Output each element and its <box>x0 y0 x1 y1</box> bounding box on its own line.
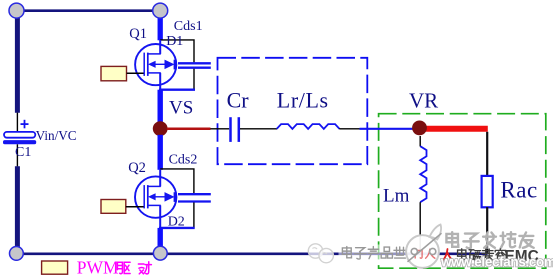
wire Rac bottom lead <box>486 207 488 253</box>
wire Q2 source bus <box>157 228 162 248</box>
svg-text:C1: C1 <box>15 145 31 160</box>
output network boundary (green dashed box) <box>379 114 546 269</box>
resistor Rac <box>482 176 493 207</box>
svg-text:Q2: Q2 <box>128 160 146 176</box>
legend PWM drive (yellow box) <box>42 261 68 274</box>
wire Rac top lead <box>486 132 488 176</box>
watermark white backing 2 <box>442 234 536 250</box>
wire Q1 gate lead <box>127 72 144 74</box>
wire Q1 drain to Cds1 (top) <box>160 40 194 63</box>
wire Q2 gate lead <box>126 206 144 208</box>
wire Q2 source return <box>159 227 195 229</box>
svg-text:PWM: PWM <box>77 258 119 278</box>
wire red to Cr plate (black) <box>210 128 229 130</box>
watermark dark text 电磁兼容 <box>458 249 506 260</box>
transistor Q2 <box>135 170 176 229</box>
label 动 (magenta hanzi) <box>138 262 151 274</box>
wire Cds2 to Q2 source (bottom lead) <box>193 203 195 229</box>
wire Lm bottom lead <box>419 202 421 253</box>
resonant tank boundary (blue dashed box) <box>218 58 368 164</box>
watermark red char 入 <box>442 249 455 261</box>
inductor Lm <box>420 146 426 202</box>
svg-text:Cr: Cr <box>227 88 250 113</box>
watermark text 电子产品世 (gray outline) <box>342 247 405 259</box>
svg-text:D1: D1 <box>166 34 183 49</box>
node top-right <box>153 3 168 18</box>
node top-left <box>9 3 24 18</box>
capacitor Cds1 <box>178 63 211 67</box>
wire VS to Cr (dark red) <box>167 128 211 131</box>
svg-text:D2: D2 <box>168 215 185 230</box>
wire Q2 drain to Cds2 (top) <box>160 169 194 193</box>
svg-text:Lm: Lm <box>383 186 410 207</box>
svg-text:Vin/VC: Vin/VC <box>36 128 77 143</box>
watermark leaf blob body <box>406 235 439 268</box>
svg-text:Lr/Ls: Lr/Ls <box>277 88 329 113</box>
node bottom-middle <box>153 246 167 260</box>
capacitor C1 (Vin/VC source) <box>3 132 36 144</box>
wire Cds1 to Q1 source (bottom lead) <box>193 69 195 90</box>
wire bottom rail <box>16 252 487 255</box>
wire Cr to Lr <box>240 128 277 130</box>
port PWM drive Q1 (yellow box) <box>101 66 127 80</box>
watermark red fragments in blob <box>415 249 435 258</box>
diode D1 (body diode) <box>165 60 175 70</box>
watermark leaf blob tail <box>430 225 442 240</box>
watermark text 电子发烧友 (big gray outline) <box>446 232 533 248</box>
watermark note circles and slash <box>408 233 442 262</box>
svg-text:Cds2: Cds2 <box>169 152 198 167</box>
wire C1 top lead <box>16 113 18 133</box>
capacitor Cds2 <box>178 194 211 201</box>
watermark EPW logo circles <box>308 244 333 263</box>
wire Q1 drain bus <box>158 13 163 40</box>
svg-text:Rac: Rac <box>500 178 537 203</box>
svg-text:Q1: Q1 <box>129 26 147 42</box>
wire Lr to green box (black) <box>339 128 359 130</box>
wire left bus lower <box>15 166 20 249</box>
watermark white backing 1 <box>339 245 406 261</box>
diode D2 (body diode) <box>165 192 175 202</box>
transistor Q1 <box>135 40 176 90</box>
wire left bus upper <box>15 13 20 113</box>
node bottom-left <box>10 247 24 261</box>
svg-text:www.elecfans.com: www.elecfans.com <box>440 255 553 270</box>
label 驱 (magenta hanzi) <box>117 262 130 273</box>
wire Q1 source return <box>159 88 195 90</box>
capacitor Cr <box>231 117 239 142</box>
wire Q1 source bus <box>157 90 162 122</box>
wire VR to Lm lead <box>419 136 421 146</box>
plus sign of C1 <box>21 120 29 129</box>
inductor Lr/Ls <box>277 124 340 129</box>
node VS <box>153 121 168 136</box>
port PWM drive Q2 (yellow box) <box>101 200 126 214</box>
wire VR to Rac (thick red) <box>420 126 488 132</box>
wire C1 bottom lead <box>16 144 18 166</box>
wire into VR (blue) <box>360 128 415 130</box>
wire VS to Q2 drain bus <box>157 135 162 170</box>
svg-text:Cds1: Cds1 <box>174 19 203 34</box>
wire top rail <box>17 9 161 12</box>
svg-text:VS: VS <box>169 98 193 119</box>
svg-text:VR: VR <box>409 89 438 113</box>
node VR <box>412 121 427 136</box>
